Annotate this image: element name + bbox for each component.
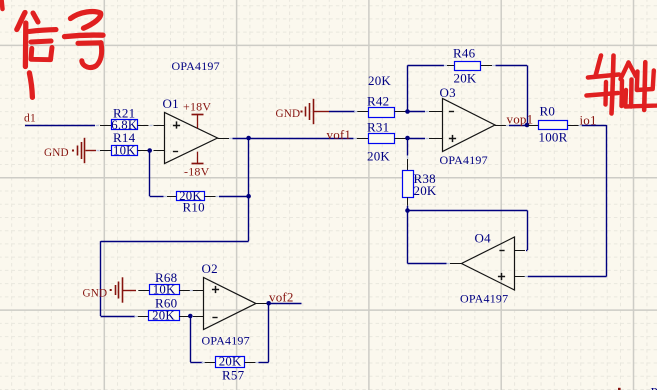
svg-text:R46: R46 bbox=[453, 46, 476, 61]
svg-text:R42: R42 bbox=[367, 94, 389, 109]
svg-text:O1: O1 bbox=[163, 96, 179, 111]
svg-text:vof1: vof1 bbox=[327, 127, 352, 142]
svg-text:O2: O2 bbox=[202, 261, 218, 276]
svg-text:O3: O3 bbox=[440, 85, 456, 100]
svg-text:20K: 20K bbox=[179, 189, 202, 203]
svg-text:vop1: vop1 bbox=[507, 112, 534, 127]
svg-text:10K: 10K bbox=[113, 144, 136, 158]
svg-text:10K: 10K bbox=[153, 282, 176, 296]
svg-text:OPA4197: OPA4197 bbox=[172, 59, 220, 73]
svg-text:20K: 20K bbox=[454, 71, 477, 86]
svg-text:20K: 20K bbox=[368, 73, 391, 88]
svg-text:d1: d1 bbox=[24, 113, 36, 125]
svg-text:O4: O4 bbox=[475, 231, 492, 246]
svg-text:+18V: +18V bbox=[183, 100, 211, 114]
svg-text:P: P bbox=[651, 385, 657, 390]
svg-text:R57: R57 bbox=[222, 367, 245, 382]
svg-text:GND: GND bbox=[276, 108, 301, 120]
svg-text:R0: R0 bbox=[540, 104, 556, 119]
svg-text:GND: GND bbox=[44, 147, 69, 159]
svg-text:20K: 20K bbox=[219, 355, 242, 369]
svg-text:GND: GND bbox=[83, 288, 108, 300]
svg-text:20K: 20K bbox=[414, 183, 437, 198]
svg-text:OPA4197: OPA4197 bbox=[202, 334, 250, 348]
svg-text:20K: 20K bbox=[152, 309, 175, 323]
svg-text:-18V: -18V bbox=[184, 165, 210, 179]
svg-text:100R: 100R bbox=[539, 130, 568, 145]
svg-text:R31: R31 bbox=[367, 120, 389, 135]
svg-text:20K: 20K bbox=[367, 149, 390, 164]
svg-text:OPA4197: OPA4197 bbox=[460, 292, 508, 306]
svg-text:OPA4197: OPA4197 bbox=[440, 153, 488, 167]
svg-text:vof2: vof2 bbox=[269, 290, 294, 305]
svg-text:io1: io1 bbox=[580, 113, 597, 128]
